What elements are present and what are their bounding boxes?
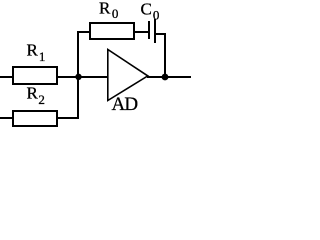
wire: R1 right lead to input node [58,76,78,78]
svg-text:R1: R1 [27,41,46,65]
wire: C0 right lead [156,33,166,35]
wire: output vertical feedback drop [164,33,166,77]
capacitor C0 right plate [154,19,156,43]
wire: feedback top wire to R0 [77,31,90,33]
svg-text:C0: C0 [141,0,160,22]
wire: op-amp output to right edge [147,76,191,78]
resistor R0 [90,23,134,39]
resistor R1 [13,67,57,84]
svg-text:R2: R2 [27,84,45,108]
svg-text:R0: R0 [99,0,118,21]
wire: R0 right lead to C0 [135,31,149,33]
resistor R2 [13,111,57,126]
op-amp U1 [108,50,148,101]
svg-text:AD: AD [112,94,138,115]
wire: input node to op-amp [78,76,108,78]
node: output junction dot [162,74,169,81]
capacitor C0 left plate [148,21,150,39]
wire: R2 left lead [0,117,12,119]
node: input junction dot [75,74,81,80]
wire: vertical input bus (feedback corner down to R2 lead) [77,31,79,119]
wire: R2 right lead to input node [58,117,79,119]
wire: R1 left lead [0,76,12,78]
